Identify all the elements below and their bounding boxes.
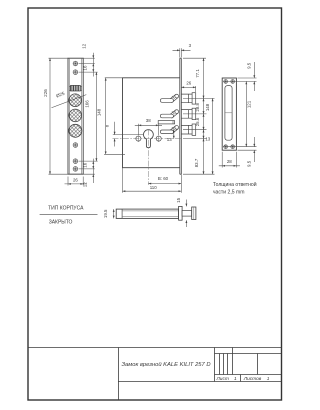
svg-text:26: 26 (73, 178, 78, 183)
svg-text:38: 38 (146, 118, 151, 123)
dimension B:60 (backset) (148, 174, 181, 193)
screw hole top 2 (73, 70, 78, 75)
label divider line (40, 213, 98, 215)
svg-text:1: 1 (234, 376, 237, 382)
lock body outline (123, 78, 180, 168)
plate top extension to right chain (183, 57, 206, 59)
faceplate inner edge lines (70, 58, 82, 174)
svg-text:83.7: 83.7 (194, 158, 199, 167)
hook bolt 1 (160, 94, 178, 102)
dimension 110 (body length) (123, 168, 182, 193)
svg-text:148: 148 (96, 108, 101, 116)
faceplate cross-section (179, 206, 183, 220)
deadbolt circle 1 (69, 94, 82, 107)
hook bolt 3 (160, 126, 178, 134)
fixing hole right (156, 135, 161, 142)
dimension 16 (bottom) (92, 159, 94, 183)
dimension 148 (left, body) (104, 78, 125, 155)
title block narrow columns (220, 354, 228, 375)
dimension 3 (faceplate thickness, top) (173, 48, 191, 57)
dimension extension lines right of view 1 (79, 58, 98, 169)
title block top line (28, 347, 282, 349)
dimension 226 (left) (49, 58, 95, 174)
svg-text:166: 166 (85, 100, 90, 108)
dimension 121 (245, 81, 247, 146)
dimension 12 (top) (92, 53, 94, 77)
svg-text:13: 13 (167, 137, 172, 142)
vertical centerline of cylinder (147, 129, 149, 185)
svg-text:16: 16 (82, 65, 87, 70)
svg-text:9.5: 9.5 (246, 62, 251, 69)
hook centerline extensions to right dims (183, 98, 215, 174)
euro cylinder profile (143, 130, 153, 148)
svg-text:ЗАКРЫТО: ЗАКРЫТО (49, 219, 73, 225)
svg-text:1: 1 (267, 376, 270, 382)
svg-text:Толщина ответной: Толщина ответной (213, 181, 257, 188)
svg-text:B: 60: B: 60 (158, 176, 169, 181)
sheet row bottom line (118, 381, 282, 383)
svg-text:110: 110 (150, 185, 158, 190)
svg-text:12: 12 (82, 43, 87, 48)
dimension 26 (bolt protrusion) (181, 86, 195, 92)
faceplate side view (two vertical lines) (180, 58, 182, 174)
bolt block 3 (181, 124, 195, 135)
strike slot (225, 86, 232, 141)
svg-text:28.8: 28.8 (195, 102, 200, 111)
title block left edge (118, 348, 120, 401)
title block columns divider (214, 348, 216, 382)
svg-text:28: 28 (227, 159, 232, 164)
svg-text:ТИП КОРПУСА: ТИП КОРПУСА (48, 206, 84, 212)
latch bar (retracted, side view) (158, 121, 174, 124)
svg-text:15: 15 (176, 197, 181, 202)
screw hole top 1 (73, 61, 78, 66)
svg-text:25.6: 25.6 (195, 117, 200, 126)
page border frame (28, 8, 282, 400)
title block top row line (215, 353, 282, 355)
strike screw hole top-left (224, 80, 228, 84)
hook bolt 2 (160, 110, 178, 118)
dimension 38 (hub to cylinder) (135, 124, 162, 135)
svg-text:148: 148 (205, 103, 210, 111)
body bar end cap line (121, 209, 123, 218)
body top edge extension (to 148 dim) (105, 77, 123, 79)
strike screw hole bottom-right (231, 145, 235, 149)
sheet row top line (215, 374, 282, 376)
deadbolt circle 2 (69, 109, 82, 122)
screw hole bottom 2 (73, 167, 78, 172)
small hole (73, 143, 78, 148)
dimension 166 (95, 72, 97, 161)
svg-text:Листов: Листов (243, 376, 262, 382)
deadbolt circle 3 (69, 124, 82, 137)
faceplate outline (68, 58, 83, 174)
screw hole bottom 1 (73, 159, 78, 164)
svg-text:Замок врезной KALE KILIT 257 D: Замок врезной KALE KILIT 257 D (122, 361, 211, 368)
body bar top view (116, 209, 178, 218)
slot middle line (225, 112, 232, 114)
latch bolt (hatched) (69, 86, 70, 90)
svg-text:226: 226 (43, 89, 48, 97)
svg-text:26: 26 (186, 81, 191, 86)
leader line for diameter 25 (52, 95, 87, 108)
dimension 28 (219, 152, 240, 168)
body bar inner lines (122, 211, 179, 217)
svg-text:13: 13 (205, 137, 210, 142)
sheet cells divider (240, 375, 242, 382)
dimension 8 (left of body) (113, 122, 143, 147)
strike screw hole top-right (231, 80, 235, 84)
strike screw hole bottom-left (224, 145, 228, 149)
dimension 9.5 top (253, 62, 255, 91)
right dimension chain 77.1 / 28.8 / 25.6 / 13 (203, 58, 205, 174)
dimension 19.5 (113, 209, 115, 218)
dimension 148 (right) (212, 98, 214, 174)
dimension 9.5 bottom (253, 137, 255, 162)
svg-text:19.5: 19.5 (103, 209, 108, 218)
strike cross-section (192, 207, 196, 220)
strike extension lines (223, 78, 257, 150)
svg-text:77.1: 77.1 (195, 69, 200, 78)
dimension 13 (left of faceplate) (173, 130, 175, 139)
svg-text:Лист: Лист (216, 376, 229, 382)
strike plate outline (222, 78, 236, 150)
svg-text:16: 16 (82, 162, 87, 167)
bolt stub (182, 211, 192, 217)
bolt block 1 (through strike) (181, 93, 195, 104)
dimension 15 (185, 200, 187, 228)
bolt block 2 (181, 108, 195, 119)
svg-text:9.5: 9.5 (246, 160, 251, 167)
horizontal centerline (113, 138, 182, 140)
dimension 26 (bottom width) (65, 177, 87, 186)
fixing hole left (136, 135, 141, 142)
svg-text:121: 121 (247, 100, 252, 108)
svg-text:части 2,5 mm: части 2,5 mm (213, 189, 245, 195)
